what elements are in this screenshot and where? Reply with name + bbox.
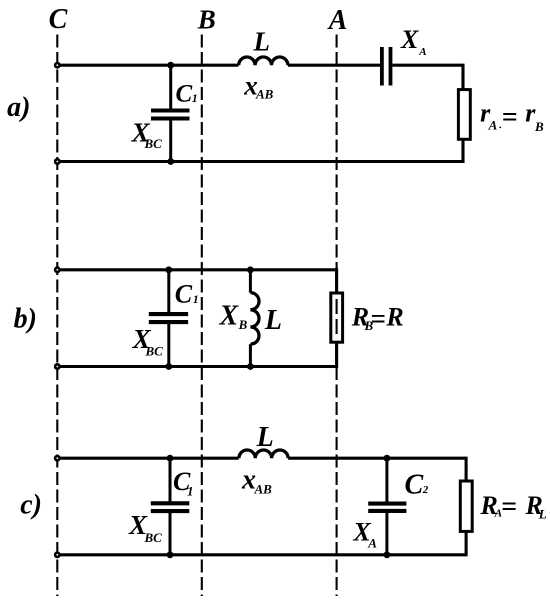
wire: right drop to resistor (a): [461, 64, 464, 91]
capacitor C1 branch upper wire (a): [169, 65, 172, 109]
wire: top rail left segment (a): [57, 64, 238, 67]
svg-text:AB: AB: [254, 481, 273, 496]
svg-text:C: C: [405, 470, 424, 501]
wire: right drop to resistor (c): [465, 457, 468, 482]
svg-text:1: 1: [193, 292, 199, 306]
capacitor C1 plates (a): [151, 111, 190, 119]
wire: resistor to bottom rail (c): [465, 531, 468, 556]
capacitor C1 branch lower wire (b): [167, 324, 170, 367]
value label C2 (c): [405, 470, 429, 501]
value label XB (b): [219, 301, 248, 333]
junction dot bottom of C2 (c): [384, 551, 391, 558]
capacitor C2 branch lower wire (c): [385, 513, 388, 555]
wire: top rail right segment (c): [288, 457, 466, 460]
value label XA (c): [352, 518, 377, 551]
wire: right branch above resistor (b): [335, 268, 338, 294]
svg-text:1: 1: [187, 484, 194, 499]
svg-text:C: C: [49, 4, 68, 35]
svg-text:=: =: [501, 492, 517, 523]
value label C1 (b): [175, 279, 199, 308]
wire: top rail between inductor and capacitor XA (a): [288, 64, 380, 67]
junction dot bottom of C1 (c): [167, 551, 174, 558]
value label xAB (c): [241, 465, 272, 497]
inductor L vertical (b): [250, 293, 259, 345]
svg-text:=: =: [502, 102, 518, 133]
capacitor C2 plates (c): [368, 504, 406, 511]
inductor branch upper wire (b): [249, 270, 252, 293]
svg-text:B: B: [197, 4, 216, 34]
terminal node bottom-left (b): [54, 363, 61, 370]
svg-text:BC: BC: [144, 136, 163, 151]
svg-text:B: B: [238, 317, 248, 332]
capacitor XA plates (a): [382, 47, 391, 86]
junction dot bottom of L (b): [247, 363, 254, 370]
capacitor C2 branch upper wire (c): [385, 458, 388, 502]
inductor branch lower wire (b): [249, 344, 252, 366]
capacitor C1 branch lower wire (a): [169, 120, 172, 162]
junction dot top of L (b): [247, 266, 254, 273]
svg-text:L: L: [253, 27, 271, 57]
wire: top rail right segment (a): [392, 64, 463, 67]
inductor L (c): [239, 450, 288, 458]
wire: top rail (b): [57, 268, 336, 271]
cut line C (dashed): [56, 35, 58, 597]
value label C1 (a): [176, 80, 198, 107]
terminal node bottom-left (c): [54, 551, 61, 558]
svg-text:B: B: [534, 119, 544, 134]
capacitor C1 plates (b): [149, 314, 188, 322]
value label xAB (a): [243, 70, 273, 101]
svg-text:X: X: [219, 301, 240, 332]
svg-text:L: L: [264, 305, 282, 336]
svg-text:A: A: [327, 5, 348, 36]
svg-text:A: A: [367, 535, 377, 550]
svg-text:AB: AB: [255, 87, 274, 102]
svg-text:X: X: [400, 25, 419, 54]
value label XBC (b): [132, 324, 164, 358]
junction dot bottom of C1 (a): [167, 158, 174, 165]
cut line A (dashed): [336, 35, 338, 597]
wire: top rail left segment (c): [57, 457, 238, 460]
svg-text:a): a): [7, 92, 30, 123]
value label RB = R (b): [351, 302, 404, 333]
svg-text:c): c): [20, 490, 42, 521]
svg-text:C: C: [175, 279, 193, 308]
capacitor C1 branch upper wire (c): [169, 458, 172, 501]
capacitor C1 branch upper wire (b): [167, 270, 170, 313]
inductor L (a): [239, 57, 288, 65]
junction dot top of C1 (a): [167, 62, 174, 69]
value label rA = rB (a): [480, 99, 544, 135]
svg-text:1: 1: [192, 91, 198, 105]
value label XBC (c): [128, 510, 162, 545]
junction dot top of C2 (c): [384, 455, 391, 462]
value label XBC (a): [131, 118, 163, 152]
svg-text:BC: BC: [145, 344, 164, 359]
capacitor C1 plates (c): [151, 503, 190, 511]
svg-text:A: A: [418, 46, 426, 58]
resistor RB (b): [331, 293, 343, 342]
value label RA = RL (c): [480, 491, 547, 522]
wire: resistor to bottom rail (a): [461, 139, 464, 163]
svg-text:A: A: [488, 118, 498, 133]
wire: bottom rail (a): [57, 160, 463, 163]
capacitor C1 branch lower wire (c): [169, 513, 172, 555]
svg-text:L: L: [256, 422, 274, 453]
value label C1 (c): [173, 467, 194, 499]
value label XA (a): [400, 25, 427, 58]
terminal node top-left (c): [54, 455, 61, 462]
junction dot top of C1 (b): [165, 266, 172, 273]
svg-text:BC: BC: [144, 530, 163, 545]
cut line B (dashed): [201, 35, 203, 597]
svg-text:2: 2: [422, 484, 429, 496]
resistor rA (a): [458, 90, 470, 140]
dashed cut line segment inside resistor RB (b): [336, 299, 338, 334]
terminal node bottom-left (a): [54, 158, 61, 165]
resistor RA (c): [460, 481, 472, 531]
junction dot top of C1 (c): [167, 455, 174, 462]
svg-text:C: C: [176, 80, 193, 107]
svg-text:b): b): [14, 304, 37, 335]
terminal node top-left (b): [54, 266, 61, 273]
terminal node top-left (a): [54, 62, 61, 69]
svg-text:R: R: [385, 302, 403, 331]
wire: right branch below resistor (b): [335, 342, 338, 368]
wire: bottom rail (c): [57, 553, 466, 556]
svg-text:L: L: [538, 506, 547, 521]
junction dot bottom of C1 (b): [165, 363, 172, 370]
svg-text:=: =: [370, 304, 385, 334]
wire: bottom rail (b): [57, 365, 336, 368]
